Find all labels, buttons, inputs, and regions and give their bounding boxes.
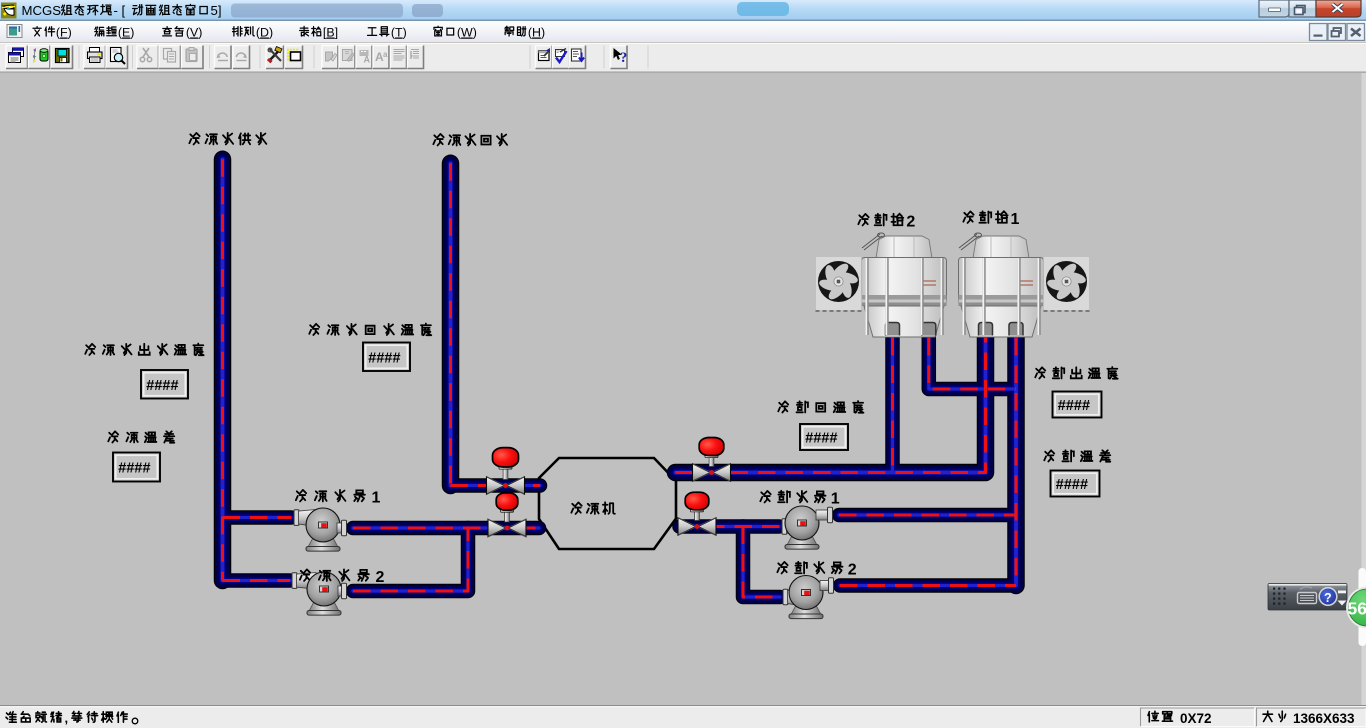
svg-text:5]: 5] [211,3,222,18]
svg-text:(D): (D) [256,26,273,40]
svg-text:- [: - [ [114,3,126,18]
svg-text:?: ? [1324,591,1332,605]
svg-text:(W): (W) [457,26,477,40]
svg-text:1366X633: 1366X633 [1293,711,1355,726]
svg-text:1: 1 [1011,211,1020,228]
svg-text:####: #### [146,378,179,394]
svg-text:MCGS: MCGS [22,3,62,18]
svg-text:(F): (F) [56,26,72,40]
svg-text:2: 2 [376,569,385,586]
svg-text:####: #### [118,461,151,477]
svg-text:?: ? [620,50,627,66]
svg-text:(V): (V) [186,26,203,40]
svg-text:####: #### [368,350,401,366]
svg-text:2: 2 [906,214,915,231]
svg-text:####: #### [1058,398,1091,414]
svg-text:56: 56 [1348,599,1366,619]
svg-text:[B]: [B] [323,26,338,40]
svg-text:a: a [383,50,388,59]
svg-text:1: 1 [372,490,381,507]
svg-text:(E): (E) [118,26,135,40]
svg-text:####: #### [1056,477,1089,493]
svg-text:(T): (T) [391,26,407,40]
svg-text:2: 2 [848,562,857,579]
svg-text:(H): (H) [528,26,545,40]
svg-text:A: A [364,55,371,65]
svg-text:1: 1 [831,491,840,508]
svg-text:,: , [65,711,69,726]
svg-text:####: #### [805,431,838,447]
svg-text:0X72: 0X72 [1180,711,1212,726]
